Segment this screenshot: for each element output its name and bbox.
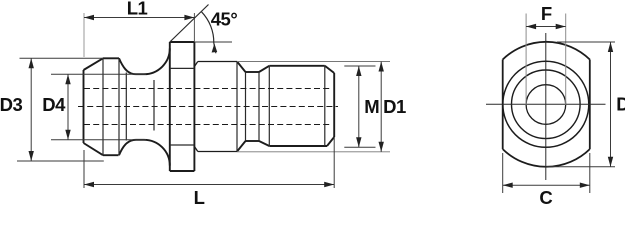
dimension L1 extension line right [193, 13, 195, 42]
thread start ring edge [268, 66, 270, 146]
outer circle bottom arc [503, 149, 590, 167]
side view: pull stud profile [84, 42, 335, 171]
flange bottom edge [170, 170, 195, 172]
svg-text:L: L [194, 187, 205, 207]
end view vertical centerline [545, 33, 547, 180]
centerline side view [78, 106, 338, 108]
dimension C arrowheads [503, 183, 590, 188]
neck inner edge 1 [125, 73, 127, 141]
neck bottom curve [119, 140, 170, 166]
end view horizontal centerline [486, 103, 606, 105]
dimension F arrowheads [526, 24, 566, 29]
svg-text:45°: 45° [211, 9, 238, 30]
head bottom edge [103, 154, 119, 156]
thread crest top [269, 65, 325, 67]
dimension L1 extension line left [83, 13, 85, 57]
flange back face [193, 42, 195, 171]
dimension L arrowheads [84, 182, 334, 187]
cylinder bottom edge [198, 151, 237, 153]
svg-text:D3: D3 [0, 94, 23, 115]
dimension M [344, 66, 375, 147]
45 degree arc [202, 12, 216, 53]
dimension L1 arrowheads [84, 15, 194, 20]
45 degree arc arrowhead [212, 44, 218, 53]
circle bore [526, 85, 566, 125]
hidden bore line bottom [84, 124, 330, 126]
neck top curve [119, 48, 170, 74]
45 degree chamfer annotation line [170, 5, 209, 43]
thread end ring edge [324, 66, 326, 146]
flange inner edge bottom [170, 144, 195, 146]
dimension L1 [84, 17, 194, 19]
flange top extension line [194, 41, 232, 43]
dimension D4 arrowheads [65, 74, 70, 140]
flange front face [169, 42, 171, 171]
head top chamfer [84, 58, 104, 70]
svg-text:D1: D1 [383, 96, 406, 117]
dimension D1 line [380, 62, 382, 152]
dimension D3 [17, 58, 104, 161]
head left face [83, 70, 85, 143]
chamfer flange to cylinder bottom [194, 147, 197, 152]
dimension D1 [237, 62, 390, 152]
dimension D4 line [67, 74, 69, 140]
groove edge left [245, 72, 247, 141]
right flat [589, 60, 591, 150]
dimension D4 [51, 74, 146, 140]
dimension L [84, 137, 334, 188]
outer circle top arc [503, 42, 590, 60]
head top edge [103, 57, 119, 59]
groove right wall top [259, 66, 269, 72]
svg-text:M: M [364, 96, 379, 117]
svg-text:F: F [541, 3, 552, 24]
thread end chamfer top [325, 66, 334, 73]
dimension D3 arrowheads [29, 58, 34, 161]
dimension M arrowheads [356, 66, 361, 147]
groove bottom bottom [246, 140, 260, 142]
groove left wall top [237, 62, 246, 73]
hidden bore line top [84, 88, 330, 90]
dimension F [526, 26, 566, 28]
circle head diameter [503, 61, 589, 147]
head bottom chamfer [84, 143, 104, 155]
head right face edge [118, 58, 120, 155]
circle mid [512, 70, 581, 139]
thread crest bottom [269, 145, 327, 147]
groove left wall bottom [237, 141, 246, 152]
dimension D arrowheads [608, 42, 613, 167]
cylinder end ring edge [236, 62, 238, 152]
thread end face [333, 73, 335, 137]
svg-text:D4: D4 [42, 94, 66, 115]
chamfer flange to cylinder top [194, 62, 197, 67]
svg-text:C: C [539, 187, 552, 207]
neck inner edge 2 [153, 80, 155, 131]
end view outline: circle with flats [503, 42, 590, 167]
flange top edge [170, 41, 195, 43]
head chamfer ring edge [102, 58, 104, 155]
cylinder top edge [198, 61, 237, 63]
thread end chamfer bottom [327, 137, 334, 146]
dimension F extension lines [526, 14, 566, 105]
groove edge right [258, 72, 260, 141]
groove right wall bottom [259, 141, 269, 146]
dimension D1 arrowheads [379, 62, 384, 152]
dimension D [547, 42, 616, 167]
left flat [502, 60, 504, 150]
svg-text:D: D [616, 93, 625, 114]
flange inner edge top [170, 67, 195, 69]
groove bottom top [246, 71, 260, 73]
svg-text:L1: L1 [127, 0, 148, 19]
dimension C [503, 153, 590, 193]
